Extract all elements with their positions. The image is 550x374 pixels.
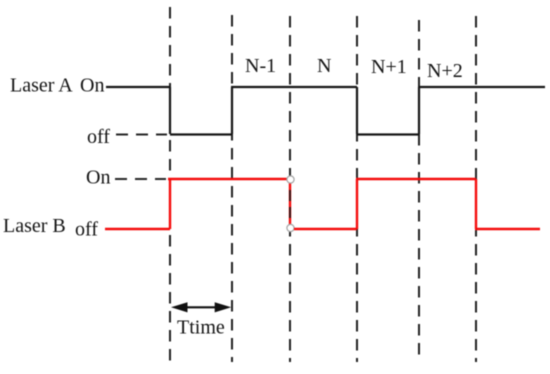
wire: Laser A On segment 1	[106, 86, 170, 88]
node marker at T3 On corner	[287, 176, 294, 183]
wire: Laser B On segment 1	[168, 178, 288, 180]
svg-text:Laser A: Laser A	[10, 75, 73, 97]
wire: Laser B rising edge at T4	[356, 179, 358, 229]
dashed time-boundary line T3 (x=290)	[289, 16, 291, 362]
dimension arrow Ttime (double-headed)	[171, 302, 231, 312]
dashed time-boundary line T1 (x=170)	[169, 7, 171, 362]
node marker at T3 off corner	[287, 224, 294, 231]
dashed time-boundary line T6 (x=476)	[475, 16, 477, 362]
dashed time-boundary line T2 (x=232)	[231, 15, 233, 362]
wire: Laser A off segment	[170, 133, 232, 135]
svg-text:off: off	[87, 126, 110, 148]
wire: Laser A off segment 2	[357, 133, 419, 135]
svg-text:N: N	[317, 55, 331, 77]
svg-text:On: On	[80, 75, 104, 97]
wire: Laser B off segment 2	[294, 228, 357, 230]
svg-text:Laser B: Laser B	[3, 215, 66, 237]
svg-text:Ttime: Ttime	[177, 317, 225, 339]
wire: Laser B falling edge at T6	[475, 179, 477, 229]
svg-text:N+2: N+2	[427, 60, 463, 82]
dashed leader for Laser B On level	[115, 178, 166, 180]
wire: Laser B off segment 3	[475, 228, 540, 230]
wire: Laser A rising edge at T2	[231, 87, 233, 134]
wire: Laser B falling edge at T3	[289, 182, 291, 226]
svg-text:N+1: N+1	[371, 56, 407, 78]
dashed time-boundary line T4 (x=357)	[356, 16, 358, 362]
dashed time-boundary line T5 (x=419)	[418, 20, 420, 362]
wire: Laser A falling edge at T1	[169, 87, 171, 134]
svg-text:On: On	[86, 167, 110, 189]
wire: Laser A On segment 2	[231, 86, 357, 88]
dashed leader for Laser A off level	[116, 134, 167, 136]
dashed line overlay on Laser B falling edge	[289, 190, 291, 224]
wire: Laser A rising edge at T5	[418, 87, 420, 134]
svg-text:off: off	[75, 219, 98, 241]
wire: Laser A On segment 3	[418, 86, 545, 88]
svg-text:N-1: N-1	[245, 55, 276, 77]
wire: Laser B On segment 2	[356, 178, 476, 180]
wire: Laser A falling edge at T4	[356, 87, 358, 134]
wire: Laser B off segment 1	[105, 228, 170, 230]
wire: Laser B rising edge at T1	[169, 179, 171, 229]
